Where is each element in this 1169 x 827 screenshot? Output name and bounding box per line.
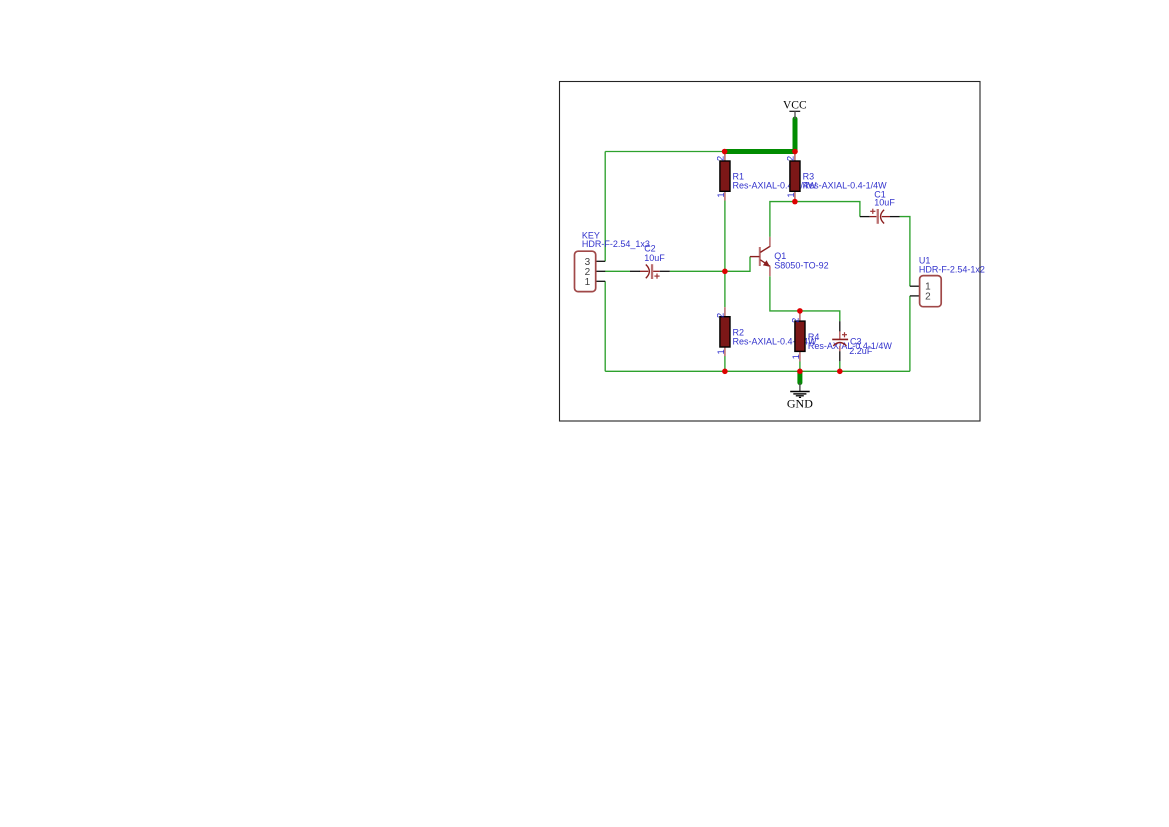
svg-text:Q1: Q1	[774, 251, 786, 261]
transistor Q1 S8050-TO-92	[750, 237, 829, 276]
svg-text:VCC: VCC	[783, 99, 807, 111]
svg-text:C2: C2	[644, 244, 656, 254]
wire C2 to Q1 base	[670, 257, 750, 272]
junction at bottom bus / GND	[797, 369, 803, 375]
svg-text:2: 2	[791, 318, 801, 323]
Q1 collector diagonal	[760, 246, 770, 252]
C1 plus sign	[870, 210, 875, 212]
resistor R4	[791, 311, 893, 362]
Q1 base bar	[759, 247, 761, 266]
svg-text:2: 2	[716, 313, 726, 318]
R2 pin 1 lead	[724, 347, 726, 356]
wire left vertical down to KEY pin 3	[604, 152, 606, 262]
KEY body	[575, 251, 596, 291]
wire KEY pin 1 down to bottom GND bus	[604, 281, 606, 371]
wire C1 right to U1 pin 1	[900, 217, 910, 287]
wire Q1 collector to R3 node and C1	[770, 202, 860, 237]
C1 right lead	[882, 216, 890, 218]
svg-text:2: 2	[925, 292, 931, 303]
C1 straight plate	[877, 209, 879, 224]
C2 straight plate	[651, 264, 653, 279]
C2 curved plate	[646, 265, 650, 279]
C3 plus sign	[842, 334, 847, 336]
R4 pin 1 lead	[799, 351, 801, 361]
U1 body	[920, 276, 942, 307]
svg-text:HDR-F-2.54-1x2: HDR-F-2.54-1x2	[919, 265, 985, 275]
KEY pin 1 stub	[596, 280, 605, 282]
junction at emitter wire / R4 top	[797, 308, 803, 314]
wire C3 bottom to bus	[839, 361, 841, 371]
capacitor C3	[832, 321, 873, 361]
svg-text:10uF: 10uF	[644, 253, 665, 263]
svg-text:1: 1	[786, 192, 796, 197]
C3 top lead	[839, 321, 841, 331]
C1 curved plate	[881, 210, 885, 224]
sheet frame	[560, 82, 981, 422]
R2 body	[720, 317, 730, 347]
C2 plus sign	[654, 275, 659, 277]
R4 pin 2 lead	[799, 311, 801, 321]
R1 pin 2 lead	[724, 152, 726, 162]
svg-text:1: 1	[716, 349, 726, 354]
svg-text:1: 1	[791, 354, 801, 359]
Q1 emitter pin	[769, 266, 771, 276]
U1 pin 1 stub	[910, 285, 920, 287]
svg-text:1: 1	[585, 277, 591, 288]
Q1 collector pin	[769, 237, 771, 246]
resistor R1	[716, 152, 817, 201]
Q1 base lead	[750, 256, 760, 258]
wire R1 bottom to R2 top	[724, 200, 726, 307]
svg-text:GND: GND	[787, 396, 813, 410]
C2 right lead	[653, 270, 660, 272]
svg-text:2.2uF: 2.2uF	[849, 346, 873, 356]
junction at VCC rail / R3 top	[792, 149, 798, 155]
wire Q1 emitter to R4 node and C3	[770, 276, 840, 321]
svg-text:2: 2	[786, 156, 796, 161]
R2 pin 2 lead	[724, 307, 726, 317]
net GND ground symbol	[787, 371, 813, 410]
R1 pin 1 lead	[724, 191, 726, 200]
U1 pin 2 stub	[910, 295, 920, 297]
C3 straight plate	[832, 338, 848, 340]
junction at bottom bus / C3	[837, 369, 843, 375]
svg-text:HDR-F-2.54_1x3: HDR-F-2.54_1x3	[582, 239, 650, 249]
connector KEY HDR-F-2.54_1x3	[575, 230, 650, 291]
KEY pin 2 stub	[596, 270, 605, 272]
svg-text:C3: C3	[850, 337, 862, 347]
junction at VCC rail left end	[722, 149, 728, 155]
wire top-left horizontal (VCC rail to R1 node)	[605, 151, 724, 153]
net VCC power symbol	[783, 99, 807, 119]
R3 pin 2 lead	[794, 152, 796, 162]
resistor R2	[716, 307, 817, 356]
junction at bottom bus / R2	[722, 369, 728, 375]
resistor R3	[786, 152, 887, 202]
capacitor C1	[860, 189, 900, 223]
C1 left lead	[860, 216, 870, 218]
connector U1 HDR-F-2.54-1x2	[910, 255, 985, 306]
svg-text:2: 2	[716, 156, 726, 161]
bus wire VCC vertical (thick)	[793, 119, 798, 152]
C3 curved plate	[833, 343, 846, 346]
wire bottom GND bus	[605, 370, 910, 372]
KEY pin 3 stub	[596, 260, 605, 262]
Q1 emitter arrow	[763, 260, 770, 267]
svg-text:S8050-TO-92: S8050-TO-92	[774, 261, 828, 271]
svg-text:1: 1	[716, 192, 726, 197]
capacitor C2	[630, 244, 670, 279]
C3 bottom lead	[839, 346, 841, 351]
wire U1 pin 2 riser	[909, 296, 911, 371]
wire R4 bottom to bus	[799, 362, 801, 372]
Q1 emitter diagonal	[760, 260, 770, 267]
wire KEY pin 2 to C2	[605, 270, 630, 272]
junction at base wire / R1-R2 column	[722, 269, 728, 275]
svg-text:10uF: 10uF	[874, 197, 895, 207]
R3 body	[790, 161, 800, 191]
junction at R3 bottom / collector node	[792, 199, 798, 205]
wire R2 bottom to bus	[724, 356, 726, 371]
C2 left lead	[630, 270, 640, 272]
bus wire VCC horizontal (thick)	[725, 149, 795, 154]
R4 body	[795, 321, 805, 351]
R1 body	[720, 161, 730, 191]
R3 pin 1 lead	[794, 191, 796, 201]
